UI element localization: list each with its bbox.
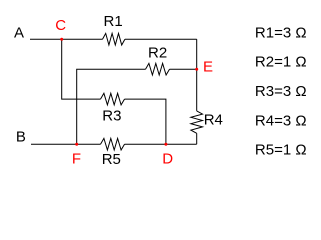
svg-text:B: B [16,128,26,145]
svg-text:D: D [162,150,173,167]
svg-text:R4=3 Ω: R4=3 Ω [255,112,307,129]
svg-text:R4: R4 [204,112,223,129]
svg-text:R2=1 Ω: R2=1 Ω [255,54,307,71]
svg-text:R2: R2 [148,45,167,62]
svg-text:R1: R1 [104,13,123,30]
svg-text:F: F [72,150,81,167]
svg-text:R5=1 Ω: R5=1 Ω [255,142,307,159]
svg-text:R1=3 Ω: R1=3 Ω [255,24,307,41]
svg-text:R3: R3 [102,108,121,125]
svg-text:A: A [14,24,24,41]
svg-text:C: C [55,17,66,34]
svg-text:R3=3 Ω: R3=3 Ω [255,83,307,100]
svg-text:E: E [203,58,213,75]
svg-text:R5: R5 [102,151,121,168]
